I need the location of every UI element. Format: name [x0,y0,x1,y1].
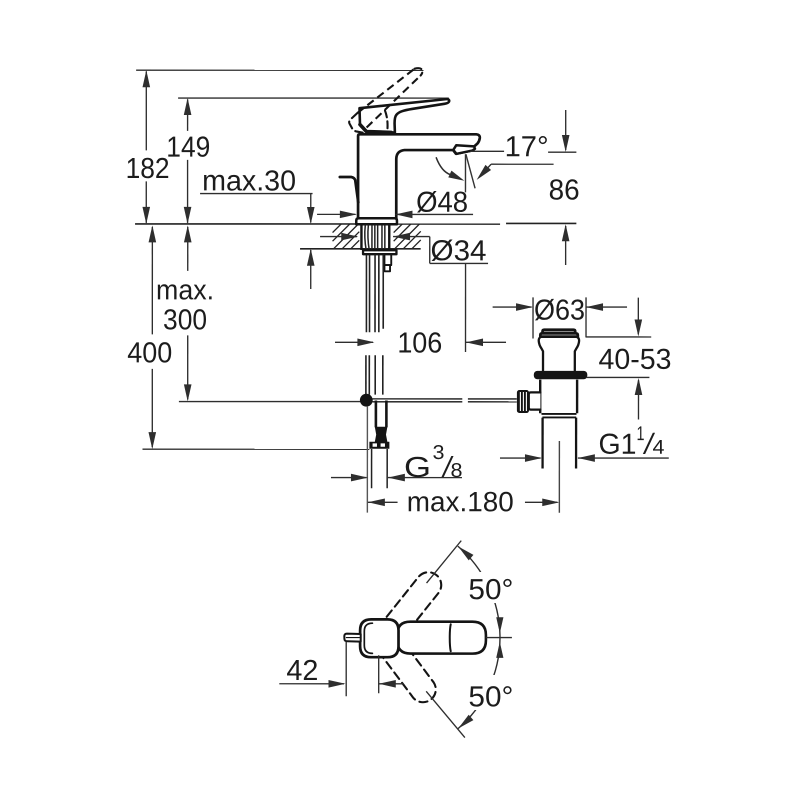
dim 149 vertical line lower [187,160,189,223]
dim 86 arrow up [562,224,570,241]
plan upper extension line [427,541,462,584]
svg-text:max.30: max.30 [202,165,296,197]
mounting bracket step 1 [384,254,391,265]
dim 182 vertical line upper [145,71,147,150]
dim 182 arrow down [142,207,150,224]
svg-text:1: 1 [636,423,644,445]
dim 4053 arrow up [635,378,643,395]
dim 34 arrow right-pointing [341,233,358,241]
svg-text:50°: 50° [468,681,513,713]
stream 17deg line [466,154,475,188]
dim 106 arrow right-pointing [357,338,374,346]
dim 63 ext line right [585,297,587,337]
dim 4053 upper shaft [637,298,639,335]
dim max300 arrow up [184,225,192,242]
plan upper arc bottom arrowhead [496,617,503,633]
raised handle dashed upper line [357,69,414,113]
svg-text:max.: max. [156,274,214,305]
dim 182 arrow up [143,70,151,87]
raised handle dashed lower line [367,75,421,127]
max.30 arrow up (below deck) [307,249,315,266]
dim 106 line right [466,341,506,343]
raised handle dashed tip [414,68,422,75]
dim G114 line left [500,457,541,459]
dim 149 arrow up [184,98,192,115]
waste knob black [517,390,529,413]
plan dashed handle rotated down 50deg [377,632,436,702]
dim 400 shaft upper [151,227,153,335]
G3/8 thread stub right [386,449,388,488]
dim 182 vertical line lower [145,181,147,223]
waste body left edge [539,380,541,414]
400 extension line at hose end [142,448,369,450]
waste cap lip bar [540,333,578,336]
dim 63 ext line left [532,297,534,338]
waste tailpipe right edge [575,418,577,469]
extension line (solid handle tip level) [178,97,449,99]
svg-text:max.180: max.180 [407,486,514,517]
svg-text:17°: 17° [505,131,549,163]
plan lever inner line [449,624,452,651]
dim G38 line left [331,477,366,479]
deck hatching [333,224,342,233]
17deg arrow leader diagonal [487,164,491,168]
plan 50deg arc full [458,547,500,729]
waste side socket [529,392,541,409]
shank locknut [363,250,396,254]
waste shoulder line 2 [542,416,576,418]
dim G114 arrow left-pointing [578,454,595,462]
17deg arrow head [477,165,491,180]
handle base bottom thick edge [360,125,391,133]
dim G38 arrow right-pointing [351,474,368,482]
dim 48 arrow left-pointing [395,211,412,219]
dim 48 arrow right-pointing [340,211,357,219]
supply hoses and pop-up rod below deck [365,255,367,333]
waste body right edge [576,380,578,414]
max300 extension line at rod [179,401,362,403]
17deg leader line [470,150,504,152]
dim 400 shaft lower [151,369,153,447]
waste cap top bar [543,330,576,333]
hose G3/8 nut upper [375,427,388,442]
dim 48 line left [317,213,356,215]
dim 42 arrow left-pointing [379,680,396,688]
deck bottom line [300,248,421,250]
dim 86 top tick [548,151,576,153]
handle lever solid [359,99,449,133]
label 50deg upper bg [464,572,518,603]
dim max180 line left [368,501,398,503]
dim 4053 top ref line [586,336,652,338]
mounting bracket step 2 [384,265,390,271]
svg-text:149: 149 [166,132,210,164]
dim 86 upper shaft [565,110,567,150]
pop-up rod ball joint [360,394,373,407]
dim 34 underline [430,262,488,264]
raised handle dashed base outline [349,113,364,133]
svg-text:4: 4 [652,437,664,459]
pop-up rod horizontal right part [468,398,517,400]
42 ext line left [345,642,347,696]
dim 86 lower shaft [565,226,567,265]
plan pin outline [344,634,360,642]
dim 42 line left [279,683,344,685]
waste tailpipe left edge [541,418,543,469]
svg-text:Ø63: Ø63 [534,295,585,327]
waste o-ring band [534,371,588,379]
plan pin inner line [346,637,360,639]
hose tube left edge [375,400,378,427]
deck top line right segment [506,222,576,224]
waste shoulder line 1 [541,413,576,415]
faucet body and spout outline [358,134,480,218]
dim 400 arrow down [148,432,156,449]
dim G38 underline [388,477,462,479]
plan handle body inner line [364,623,372,653]
dim 48 line right [395,213,473,215]
dim 106 line left [335,341,373,343]
max.30 leader vertical [310,194,312,223]
waste flange left profile [539,337,543,371]
dim 63 line right [586,306,627,308]
plan handle lever [397,622,486,654]
42 ext line right [378,655,380,693]
dim 63 line left [493,306,532,308]
svg-text:Ø34: Ø34 [431,235,487,267]
dim 106 arrow left-pointing [466,339,483,347]
plan upper arc top arrowhead [458,547,473,561]
svg-text:182: 182 [126,153,170,185]
waste knob knurls [519,392,521,411]
dim max300 arrow down [184,384,192,401]
plan lower arc bottom arrowhead [458,715,473,729]
plan dashed handle rotated up 50deg [378,572,441,645]
svg-text:G: G [404,452,431,484]
svg-text:106: 106 [397,327,442,359]
deck top line [135,223,500,225]
stream vertical reference line [464,154,466,192]
svg-text:G1: G1 [598,429,636,461]
pop-up rod vertical lower [366,407,368,513]
svg-text:300: 300 [163,304,207,336]
max.30 lower arrow shaft [310,250,312,289]
dim G38 arrow left-pointing [388,474,405,482]
stream curved arrow head [448,171,464,181]
svg-text:86: 86 [549,175,580,207]
dim max300 shaft lower [187,335,189,399]
svg-text:Ø48: Ø48 [416,187,468,219]
plan lower arc top arrowhead [496,642,503,658]
pop-up pull rod front [340,177,358,202]
dim 149 vertical line upper [187,99,189,131]
svg-text:50°: 50° [468,574,513,606]
waste flange right profile [575,337,579,371]
dim 42 arrow right-pointing [328,680,345,688]
hose G3/8 nut lower [369,442,389,449]
raised handle dashed pivot arc [385,111,388,130]
pop-up rod horizontal left part [373,398,463,400]
max.30 leader underline [200,193,313,195]
dim 34 extension line down [465,263,467,352]
plan handle body outer [360,619,398,657]
plan lower extension line [426,691,465,737]
waste centerline [558,441,560,513]
dim 86 arrow down [562,135,570,152]
max.30 arrow down (above deck) [307,207,315,224]
svg-text:400: 400 [127,337,172,369]
dim max180 arrow right-pointing [542,499,559,507]
nut highlight notches [373,443,377,446]
stream curved arrow arc [436,158,450,175]
dim G114 line right [578,457,669,459]
dim G114 arrow right-pointing [525,454,542,462]
plan 0deg reference line [486,637,512,639]
spout aerator [453,145,475,154]
dim max180 line right [525,501,558,503]
svg-text:42: 42 [286,655,318,687]
dim 4053 lower shaft [637,380,639,419]
dim 34 line left [320,236,357,238]
svg-text:8: 8 [450,460,462,482]
dim 4053 arrow down [635,319,643,336]
hose tube right edge [385,400,388,427]
threaded shank in deck hole [360,225,362,250]
dim 149 arrow down [184,207,192,224]
dim 400 arrow up [149,225,157,242]
label 50deg lower bg [464,675,520,710]
waste white underlay [539,330,580,372]
dim 42 line right tail [379,683,404,685]
dim 34 leader horizontal [393,236,430,238]
extension line top (raised handle tip level) [136,69,423,71]
svg-text:40-53: 40-53 [599,344,672,376]
dim 34 leader vertical [429,237,431,264]
base flange [356,218,397,224]
17deg arrow leader horizontal [491,163,553,165]
G3/8 thread stub left [371,449,373,488]
dim max300 shaft upper [187,227,189,271]
dim 4053 bottom ref line [587,376,650,378]
dim max180 arrow left-pointing [368,498,385,506]
dim 34 arrow left-pointing [393,233,410,241]
dim 63 arrow right-pointing [516,303,533,311]
dim 63 arrow left-pointing [586,303,603,311]
